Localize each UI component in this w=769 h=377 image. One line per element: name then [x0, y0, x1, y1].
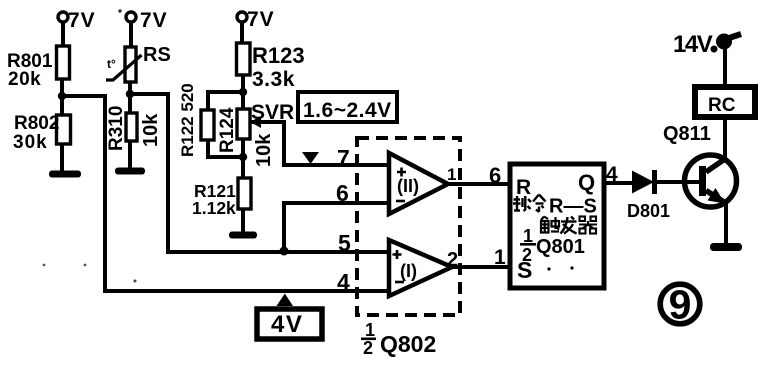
svg-text:R124: R124 — [217, 107, 238, 153]
svg-text:1: 1 — [365, 320, 375, 340]
svg-text:R802: R802 — [14, 113, 59, 134]
svg-text:4: 4 — [337, 269, 350, 295]
svg-text:2: 2 — [363, 338, 373, 358]
svg-text:2: 2 — [447, 249, 458, 271]
svg-text:6: 6 — [336, 180, 349, 206]
svg-text:7V: 7V — [140, 9, 168, 32]
svg-text:RS: RS — [143, 44, 171, 66]
svg-text:Q801: Q801 — [536, 236, 585, 258]
svg-text:1: 1 — [494, 246, 506, 269]
svg-text:4V: 4V — [271, 311, 303, 338]
svg-text:9: 9 — [669, 282, 692, 328]
svg-text:R: R — [516, 176, 531, 199]
svg-text:1.6~2.4V: 1.6~2.4V — [303, 99, 392, 122]
svg-text:1.12k: 1.12k — [192, 198, 236, 218]
svg-text:(II): (II) — [397, 176, 419, 196]
svg-text:t°: t° — [107, 57, 116, 71]
svg-text:(I): (I) — [400, 261, 417, 281]
svg-text:7V: 7V — [247, 8, 275, 31]
svg-text:10k: 10k — [140, 113, 162, 147]
svg-text:7V: 7V — [68, 9, 96, 32]
svg-text:Q811: Q811 — [663, 123, 711, 145]
svg-text:5: 5 — [338, 230, 351, 256]
svg-text:14V: 14V — [673, 31, 713, 58]
svg-text:R310: R310 — [106, 106, 127, 151]
svg-text:Q: Q — [578, 170, 595, 195]
svg-text:D801: D801 — [627, 201, 670, 221]
svg-text:3.3k: 3.3k — [252, 68, 295, 91]
svg-text:R122 520: R122 520 — [178, 83, 197, 157]
svg-text:10k: 10k — [253, 133, 275, 167]
svg-text:1: 1 — [447, 165, 456, 184]
svg-text:RC: RC — [708, 95, 736, 116]
svg-text:SVR: SVR — [251, 101, 294, 124]
svg-text:7: 7 — [337, 145, 350, 171]
svg-text:R—S: R—S — [549, 196, 597, 218]
svg-text:Q802: Q802 — [380, 331, 436, 357]
svg-text:R123: R123 — [252, 43, 305, 68]
svg-text:30k: 30k — [13, 132, 48, 153]
svg-text:2: 2 — [522, 245, 532, 265]
svg-text:20k: 20k — [8, 69, 41, 90]
svg-text:4: 4 — [606, 163, 618, 186]
svg-text:6: 6 — [489, 163, 501, 188]
